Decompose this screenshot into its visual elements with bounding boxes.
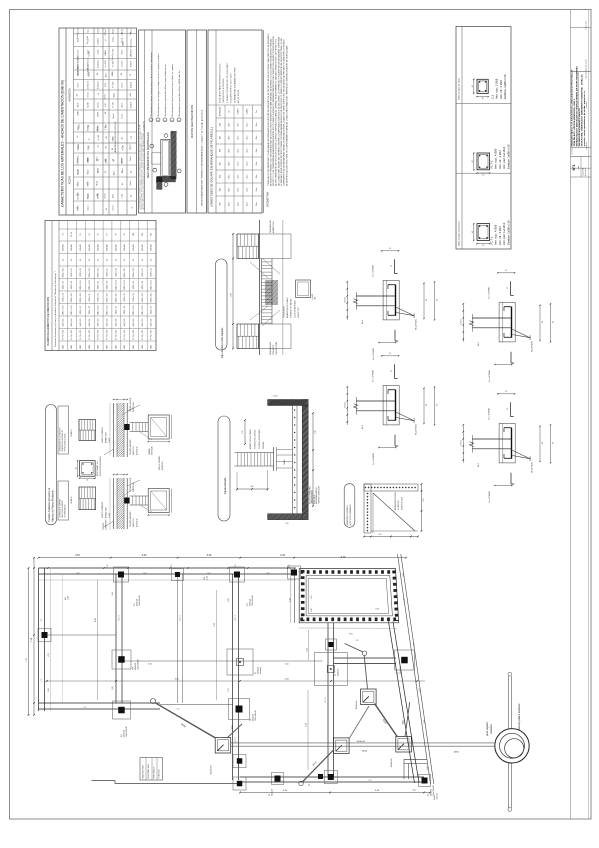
svg-text:VC.T-1: VC.T-1: [235, 737, 237, 743]
svg-text:P8: P8: [115, 233, 117, 235]
plan: right boundary double line: [398, 554, 431, 784]
plan: wall E angled strip footing: [393, 622, 419, 784]
svg-text:30: 30: [391, 370, 393, 372]
svg-text:P.10: P.10: [133, 667, 135, 670]
svg-text:70cm: 70cm: [256, 122, 258, 127]
plan: tie beam B2: [177, 574, 179, 703]
svg-text:1.50: 1.50: [105, 83, 107, 86]
svg-text:40: 40: [472, 85, 474, 87]
svg-text:Muros: Muros: [77, 83, 80, 88]
svg-text:P9: P9: [124, 233, 126, 235]
svg-text:30x30x-65: 30x30x-65: [356, 701, 358, 710]
svg-text:40: 40: [131, 195, 133, 197]
svg-text:50 mm: 50 mm: [122, 82, 124, 88]
svg-text:5Ø12 c/ 21: 5Ø12 c/ 21: [71, 281, 73, 289]
svg-text:0.10: 0.10: [403, 573, 405, 576]
svg-text:1.85: 1.85: [285, 523, 288, 525]
svg-text:Arm. sup.: 2 Ø16: Arm. sup.: 2 Ø16: [495, 78, 499, 99]
svg-text:3Ø12 c/ 13.5: 3Ø12 c/ 13.5: [115, 293, 117, 303]
svg-text:50: 50: [89, 259, 91, 261]
detail: zapata aislada pill label: [218, 416, 230, 521]
table: cuadro de elementos de cimentacion: [45, 221, 156, 351]
svg-text:Arm. inf.: 3 Ø16: Arm. inf.: 3 Ø16: [499, 80, 503, 99]
svg-text:25: 25: [130, 74, 132, 76]
detail: muro section M.1: [344, 353, 438, 465]
svg-text:P.3: P.3: [309, 784, 311, 786]
svg-text:4Ø12: 4Ø12: [151, 345, 153, 349]
svg-text:HA-25/P/20/IIa: HA-25/P/20/IIa: [531, 462, 534, 473]
svg-text:LO INDICADO EN LA VIGENTE INST: LO INDICADO EN LA VIGENTE INSTRUCCION EH…: [280, 37, 283, 186]
svg-text:B-500-S: B-500-S: [131, 81, 133, 88]
svg-text:25: 25: [87, 183, 89, 185]
svg-text:san martin de unx (navarra): san martin de unx (navarra) c/ mayor 14: [578, 108, 581, 147]
svg-text:1eØ6 c/15: 1eØ6 c/15: [71, 319, 73, 327]
svg-text:IIa: IIa: [89, 138, 91, 140]
svg-text:65: 65: [437, 404, 439, 406]
svg-text:50: 50: [115, 259, 117, 261]
svg-text:4Ø12: 4Ø12: [62, 345, 64, 349]
svg-text:Ø12: Ø12: [220, 188, 222, 191]
svg-text:pozo registro: pozo registro: [486, 721, 489, 735]
svg-text:P2, P6: P2, P6: [71, 232, 73, 237]
plan: bottom-right room walls: [404, 758, 427, 760]
svg-text:1.10x1.10: 1.10x1.10: [437, 793, 439, 800]
svg-text:0.60: 0.60: [250, 486, 253, 488]
svg-text:70cm: 70cm: [256, 201, 258, 206]
svg-text:2.40: 2.40: [112, 592, 114, 595]
svg-text:40cm: 40cm: [229, 174, 231, 179]
block: geometria notes: [264, 30, 289, 213]
plan: boundary line bottom-left: [92, 781, 241, 784]
svg-text:B-400-S: B-400-S: [238, 109, 240, 115]
svg-text:4Ø12: 4Ø12: [142, 345, 144, 349]
svg-text:N/mm2: N/mm2: [131, 42, 133, 47]
svg-text:4Ø12 c/ 25: 4Ø12 c/ 25: [142, 268, 144, 276]
svg-text:P.12: P.12: [134, 603, 136, 606]
svg-text:C.2: C.2: [282, 781, 285, 783]
svg-text:Referencias Dimensiones [cm]: Referencias Dimensiones [cm] Canto [cm] …: [54, 270, 57, 347]
svg-text:5Ø12 c/ 21: 5Ø12 c/ 21: [151, 268, 153, 276]
svg-text:0.35: 0.35: [228, 598, 230, 601]
svg-text:4Ø12 c/ 25: 4Ø12 c/ 25: [107, 268, 109, 276]
svg-text:Ys 1.15: Ys 1.15: [113, 102, 115, 108]
detail: viga de atado pill label: [216, 259, 228, 358]
svg-text:IIa: IIa: [88, 125, 90, 127]
svg-text:Nivel: Nivel: [98, 38, 100, 42]
svg-text:25 25 25: 25 25 25: [460, 440, 462, 446]
svg-text:Ø12: Ø12: [220, 123, 222, 126]
svg-text:Sin: Sin: [229, 110, 231, 112]
svg-text:4Ø12: 4Ø12: [124, 345, 126, 349]
svg-text:HA-25/P/20/IIa: HA-25/P/20/IIa: [415, 424, 418, 435]
svg-text:Recubrimiento lateral libre 4/: Recubrimiento lateral libre 4/5cm. s/EHE…: [178, 70, 181, 116]
svg-text:1eØ6 c/15: 1eØ6 c/15: [107, 319, 109, 327]
svg-text:4: 4: [166, 133, 168, 134]
svg-text:50: 50: [71, 259, 73, 261]
svg-text:30: 30: [389, 353, 391, 355]
svg-text:Cimen.: Cimen.: [78, 49, 80, 55]
svg-text:C.1´: C.1´: [177, 708, 181, 711]
svg-text:0.60: 0.60: [231, 293, 233, 297]
svg-text:plano de situacion escala: plano de situacion escala: [584, 59, 587, 78]
svg-text:Normal: Normal: [97, 102, 100, 108]
svg-text:2.43: 2.43: [404, 598, 406, 602]
svg-text:1.30x1.30x0.50: 1.30x1.30x0.50: [255, 710, 257, 721]
svg-text:3Ø12 c/ 13.5: 3Ø12 c/ 13.5: [80, 280, 82, 290]
svg-text:CEM II: CEM II: [78, 143, 80, 148]
svg-text:fecha abril: fecha abril: [585, 168, 587, 176]
svg-text:P6, P8 y P12: P6, P8 y P12: [62, 330, 64, 340]
svg-text:50: 50: [151, 259, 153, 261]
svg-text:0.50: 0.50: [311, 608, 313, 611]
svg-text:P3: P3: [80, 233, 82, 235]
svg-text:40cm: 40cm: [229, 187, 231, 192]
svg-text:45cm: 45cm: [238, 201, 240, 206]
svg-text:30: 30: [505, 391, 507, 393]
svg-text:50: 50: [98, 259, 100, 261]
svg-text:P.7: P.7: [398, 672, 400, 674]
svg-text:± 0.00: ± 0.00: [273, 396, 278, 398]
svg-text:4Ø12 c/ 25: 4Ø12 c/ 25: [133, 281, 135, 289]
svg-text:HL-150: HL-150: [98, 135, 100, 140]
svg-text:3Ø12 c/ 13.5: 3Ø12 c/ 13.5: [71, 305, 73, 315]
svg-text:1.30x1.30x0.50: 1.30x1.30x0.50: [139, 595, 141, 606]
svg-text:Recubrimiento lateral contacto: Recubrimiento lateral contacto terreno ≥…: [171, 64, 174, 116]
svg-text:Normal: Normal: [113, 205, 115, 211]
plan: bottom-left strip footing wall: [39, 702, 161, 704]
svg-text:Ø6: Ø6: [77, 194, 79, 196]
detail: murete corner pill label: [344, 484, 355, 528]
svg-text:70cm: 70cm: [256, 161, 258, 166]
svg-text:Arm. sup.: 4 Ø20: Arm. sup.: 4 Ø20: [494, 148, 498, 169]
svg-text:1eØ6 c/15: 1eØ6 c/15: [124, 319, 126, 327]
svg-text:45cm: 45cm: [238, 148, 240, 153]
svg-text:B-500-S: B-500-S: [131, 48, 133, 55]
svg-text:TERRENO: TERRENO: [103, 522, 105, 530]
svg-text:110x110: 110x110: [107, 244, 109, 250]
svg-text:I) SOLAPE CON MENOS DEL 50% SO: I) SOLAPE CON MENOS DEL 50% SOLICITADO: [226, 63, 229, 103]
svg-text:ACERO: ACERO: [69, 176, 72, 185]
svg-text:plano: plano: [578, 166, 580, 170]
svg-text:30x30+50: 30x30+50: [137, 599, 139, 606]
svg-text:150x170: 150x170: [133, 244, 135, 251]
svg-text:P.11: P.11: [121, 734, 123, 737]
svg-text:N/mm2: N/mm2: [130, 144, 132, 149]
svg-text:P.1: P.1: [428, 794, 430, 796]
svg-text:130x130: 130x130: [124, 244, 126, 251]
svg-text:P6, P8 y P12: P6, P8 y P12: [133, 330, 135, 340]
svg-text:40mm: 40mm: [122, 102, 124, 107]
svg-text:50: 50: [105, 112, 107, 114]
svg-text:Arm. inf.: 3 Ø12: Arm. inf.: 3 Ø12: [498, 226, 502, 245]
svg-text:4Ø12: 4Ø12: [107, 345, 109, 349]
svg-text:4Ø12: 4Ø12: [115, 345, 117, 349]
svg-text:MURETE BLOQUE: MURETE BLOQUE: [401, 497, 403, 510]
svg-text:TERRENO FIRME: TERRENO FIRME: [276, 342, 278, 355]
svg-text:25 25 25: 25 25 25: [344, 297, 346, 303]
title block strip: [570, 10, 591, 820]
svg-text:2: 2: [166, 182, 168, 183]
svg-text:2.39: 2.39: [214, 623, 216, 627]
table: vigas centradoras y de atado: [456, 27, 511, 250]
plan: top strip footing wall: [39, 567, 297, 569]
svg-text:25 25 25: 25 25 25: [344, 402, 346, 408]
svg-text:Estadistico: Estadistico: [97, 81, 100, 89]
svg-text:P10: P10: [133, 233, 135, 236]
svg-text:40: 40: [472, 231, 474, 233]
svg-text:55cm: 55cm: [247, 135, 249, 140]
plan: tie beam left-wall to B at y 635: [45, 634, 117, 636]
svg-text:50: 50: [107, 259, 109, 261]
svg-text:0.90: 0.90: [48, 688, 50, 691]
svg-text:5Ø12 c/ 21: 5Ø12 c/ 21: [89, 306, 91, 314]
svg-text:3Ø12 c/ 13.5: 3Ø12 c/ 13.5: [98, 305, 100, 315]
svg-text:1.50: 1.50: [105, 53, 107, 56]
svg-text:25 N/mm2: 25 N/mm2: [88, 81, 90, 89]
svg-text:HL-150: HL-150: [88, 52, 90, 57]
svg-text:IIa: IIa: [98, 93, 100, 95]
table: caracteristicas de los materiales - anchos de cimentacion: [59, 28, 137, 215]
svg-text:3Ø12 c/ 13.5: 3Ø12 c/ 13.5: [98, 268, 100, 278]
svg-text:Tabla de vigas centradoras: Tabla de vigas centradoras: [457, 221, 460, 246]
svg-text:30x30+50: 30x30+50: [124, 730, 126, 737]
block: recubrimientos nominales: [139, 30, 186, 213]
svg-text:VC.T-1: VC.T-1: [325, 697, 327, 703]
svg-text:0.26: 0.26: [412, 790, 415, 792]
svg-text:185x185: 185x185: [142, 244, 144, 251]
svg-text:30: 30: [482, 98, 484, 100]
svg-text:N/mm2: N/mm2: [112, 55, 114, 60]
svg-text:colector público existente: colector público existente: [518, 703, 521, 731]
svg-text:c/30: c/30: [97, 194, 99, 197]
svg-text:B 500 S: B 500 S: [131, 60, 133, 67]
svg-text:croquis obra: croquis obra: [584, 21, 587, 30]
svg-text:Estribos: 1eØ8 c/ 30: Estribos: 1eØ8 c/ 30: [503, 74, 507, 99]
svg-text:4Ø12 c/ 25: 4Ø12 c/ 25: [115, 306, 117, 314]
plan: wall B strip footing: [115, 574, 117, 703]
svg-text:0.25: 0.25: [379, 534, 382, 536]
svg-text:150x170: 150x170: [80, 244, 82, 251]
svg-text:30x30+50: 30x30+50: [135, 663, 137, 670]
svg-text:II) SOLAPE ENTRE EL 50% Y 100%: II) SOLAPE ENTRE EL 50% Y 100%: [230, 73, 233, 103]
svg-text:5.41: 5.41: [424, 720, 426, 724]
svg-text:4Ø12 c/ 25: 4Ø12 c/ 25: [124, 293, 126, 301]
svg-text:EV.0: EV.0: [349, 634, 352, 636]
svg-text:40mm: 40mm: [122, 49, 124, 54]
svg-text:promotor: excmo. ayuntamiento: promotor: excmo. ayuntamiento de artieda…: [583, 90, 586, 147]
svg-text:Forjados Sanitarios Apoyados e: Forjados Sanitarios Apoyados en: [48, 487, 51, 521]
detail: zapata aislada section: [235, 396, 321, 526]
detail: muro section M.2: [460, 391, 554, 503]
svg-text:120x120: 120x120: [98, 244, 100, 251]
plan: arquetas: [211, 689, 412, 774]
svg-text:0.55: 0.55: [311, 595, 313, 598]
svg-text:4.43: 4.43: [95, 618, 97, 622]
svg-text:4Ø12: 4Ø12: [133, 345, 135, 349]
svg-text:105x105: 105x105: [62, 244, 64, 251]
svg-text:45cm: 45cm: [238, 174, 240, 179]
svg-text:VC.T-1: VC.T-1: [235, 615, 237, 621]
svg-text:P11: P11: [142, 233, 144, 236]
svg-text:Recubrimiento superior libre 4: Recubrimiento superior libre 4/5cm. segu…: [164, 64, 167, 117]
svg-text:40cm: 40cm: [229, 122, 231, 127]
svg-text:55cm: 55cm: [247, 187, 249, 192]
svg-text:5Ø12 c/ 21: 5Ø12 c/ 21: [98, 293, 100, 301]
floor plan group: [26, 554, 529, 811]
svg-text:30x30+: 30x30+: [434, 795, 436, 800]
svg-text:Coef.: Coef.: [105, 29, 107, 33]
svg-text:Arm. sup.: 4 Ø16: Arm. sup.: 4 Ø16: [494, 224, 498, 245]
svg-text:c/30: c/30: [105, 125, 107, 128]
svg-text:65: 65: [437, 299, 439, 301]
svg-text:C.1: C.1: [144, 572, 147, 574]
svg-text:1eØ6 c/15: 1eØ6 c/15: [142, 319, 144, 327]
detail: forjados text scatter: [96, 398, 164, 530]
svg-text:0.25: 0.25: [423, 498, 425, 501]
svg-text:1.15: 1.15: [130, 136, 132, 139]
svg-text:4.29: 4.29: [341, 556, 346, 559]
svg-text:TODAS LAS COTAS DEBEN SER COMP: TODAS LAS COTAS DEBEN SER COMPROBADAS EN…: [267, 33, 270, 186]
svg-text:HA-25/P/20/IIa: HA-25/P/20/IIa: [415, 319, 418, 330]
svg-text:VC.T-2: VC.T-2: [490, 160, 494, 169]
svg-text:ART. 66 EHE-08: ART. 66 EHE-08: [237, 90, 240, 103]
svg-text:2.39: 2.39: [228, 688, 230, 691]
svg-text:3: 3: [155, 168, 157, 169]
svg-text:7.38: 7.38: [26, 658, 28, 662]
plan: bottom-right wall: [240, 776, 424, 778]
svg-text:25: 25: [87, 42, 89, 44]
svg-text:C.1: C.1: [267, 572, 270, 574]
svg-text:1eØ6 c/15: 1eØ6 c/15: [80, 319, 82, 327]
svg-text:LONGITUDES DE SOLAPE EN AR: LONGITUDES DE SOLAPE EN ARRANQUE DE PILA…: [210, 127, 214, 207]
svg-text:50: 50: [131, 55, 133, 57]
svg-text:VC.T-1: VC.T-1: [490, 236, 494, 245]
svg-text:1.50: 1.50: [87, 36, 89, 39]
svg-text:Ym 1.50: Ym 1.50: [113, 82, 115, 88]
detail: murete brick plan A: [79, 420, 96, 441]
svg-text:P5: P5: [98, 233, 100, 235]
svg-text:1.5: 1.5: [105, 171, 107, 173]
svg-text:1.43: 1.43: [414, 643, 416, 647]
svg-text:30: 30: [505, 270, 507, 272]
svg-text:40cm: 40cm: [229, 201, 231, 206]
svg-text:40cm: 40cm: [229, 135, 231, 140]
svg-text:4Ø12 c/ 25: 4Ø12 c/ 25: [98, 281, 100, 289]
svg-text:30: 30: [507, 287, 509, 289]
svg-text:B-500-S: B-500-S: [131, 101, 133, 108]
svg-text:Ø6: Ø6: [97, 73, 99, 75]
svg-text:Recubrimiento con hormigon de: Recubrimiento con hormigon de limpieza 4…: [157, 54, 160, 117]
svg-text:30x30+50: 30x30+50: [250, 599, 252, 606]
svg-text:40mm: 40mm: [122, 159, 124, 164]
svg-text:HL-150: HL-150: [78, 169, 80, 174]
svg-text:1.50: 1.50: [130, 33, 132, 36]
svg-text:C.2: C.2: [491, 94, 495, 99]
svg-text:30: 30: [389, 248, 391, 250]
svg-text:CEM II: CEM II: [78, 110, 80, 115]
svg-text:P.2: P.2: [335, 674, 337, 676]
svg-text:40: 40: [75, 467, 77, 469]
svg-text:40: 40: [426, 299, 428, 301]
svg-text:NOTA: VALIDO PARA HORMIGON fck: NOTA: VALIDO PARA HORMIGON fck≥25 N/mm²: [219, 63, 222, 103]
plan: dimension lines: [26, 554, 431, 793]
svg-text:Ym 1.50: Ym 1.50: [113, 49, 115, 55]
svg-text:30x30+50: 30x30+50: [258, 667, 260, 674]
svg-text:Estad.: Estad.: [97, 49, 100, 54]
svg-text:40: 40: [131, 171, 133, 173]
svg-text:3Ø12 c/ 13.5: 3Ø12 c/ 13.5: [133, 268, 135, 278]
svg-text:1: 1: [179, 169, 181, 170]
svg-text:Viga de Atado Entre Zapatas: Viga de Atado Entre Zapatas: [221, 327, 224, 358]
svg-text:50: 50: [142, 259, 144, 261]
svg-text:4.44: 4.44: [285, 664, 289, 666]
svg-text:65: 65: [553, 321, 555, 323]
svg-text:5Ø12 c/ 21: 5Ø12 c/ 21: [142, 281, 144, 289]
svg-text:Ø6: Ø6: [77, 94, 79, 96]
svg-text:Ø250: Ø250: [362, 751, 368, 753]
svg-text:B-500-S: B-500-S: [247, 109, 249, 115]
svg-text:3Ø12 c/ 13.5: 3Ø12 c/ 13.5: [115, 280, 117, 290]
plan: wall D strip footing: [327, 623, 329, 777]
svg-text:1.15: 1.15: [97, 145, 99, 148]
svg-text:IIa: IIa: [77, 136, 79, 138]
svg-text:1.50: 1.50: [122, 194, 124, 197]
svg-text:γc: γc: [105, 39, 107, 41]
svg-text:45cm: 45cm: [238, 161, 240, 166]
svg-text:C.2: C.2: [369, 780, 372, 782]
svg-text:2.82: 2.82: [48, 653, 50, 656]
detail: muro section with forjado ladder: [101, 478, 172, 529]
svg-text:1eØ6 c/15: 1eØ6 c/15: [115, 319, 117, 327]
svg-text:3Ø12 c/ 13.5: 3Ø12 c/ 13.5: [124, 280, 126, 290]
svg-text:0.30: 0.30: [204, 577, 206, 580]
svg-text:3.40: 3.40: [142, 554, 147, 557]
svg-text:30: 30: [507, 408, 509, 410]
svg-text:P.12: P.12: [247, 603, 249, 606]
svg-text:Normal: Normal: [105, 193, 107, 199]
stirrup diagram C.2: [477, 79, 488, 93]
svg-text:25 25 25: 25 25 25: [460, 319, 462, 325]
svg-text:3.60: 3.60: [289, 598, 291, 602]
detail: viga de atado section: [231, 219, 317, 355]
svg-text:escala 1/50: escala 1/50: [583, 168, 585, 176]
svg-text:C.1: C.1: [41, 679, 43, 682]
svg-text:Ø250: Ø250: [454, 752, 460, 754]
svg-text:50: 50: [121, 137, 123, 139]
svg-text:4Ø12 c/ 25: 4Ø12 c/ 25: [62, 281, 64, 289]
svg-text:Ø16: Ø16: [220, 136, 222, 139]
svg-text:Ø6: Ø6: [121, 73, 123, 75]
svg-text:VC.T-1: VC.T-1: [119, 615, 121, 621]
svg-text:0.13: 0.13: [235, 564, 237, 567]
svg-text:50: 50: [124, 259, 126, 261]
svg-text:3Ø12 c/ 13.5: 3Ø12 c/ 13.5: [89, 268, 91, 278]
svg-text:3.40: 3.40: [148, 664, 152, 666]
svg-text:45cm: 45cm: [238, 187, 240, 192]
detail: murete brick plan B: [79, 487, 96, 510]
svg-text:P.4: P.4: [269, 794, 271, 796]
svg-text:N/mm2: N/mm2: [113, 114, 115, 119]
table: longitudes de solape en arranque de pilares: [208, 30, 262, 213]
svg-text:B500S: B500S: [112, 71, 114, 76]
plan: tie beam B to D at y 661: [122, 660, 323, 662]
svg-text:Arm. inf.: 3 Ø12: Arm. inf.: 3 Ø12: [498, 150, 502, 169]
svg-text:fyk 500: fyk 500: [88, 102, 90, 108]
svg-text:LAS CONDICIONES REALES DEL TER: LAS CONDICIONES REALES DEL TERRENO, SIEM…: [277, 36, 280, 186]
svg-text:30: 30: [482, 245, 484, 247]
svg-text:0.13: 0.13: [171, 564, 173, 567]
svg-text:40: 40: [542, 442, 544, 444]
